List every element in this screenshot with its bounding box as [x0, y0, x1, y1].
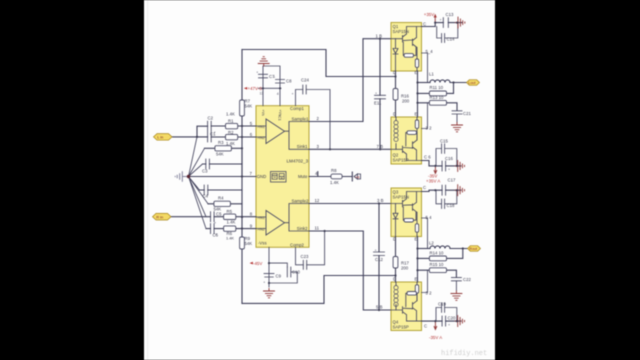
svg-text:C 6: C 6 [424, 155, 431, 160]
svg-text:+: + [215, 233, 217, 237]
svg-text:5 B: 5 B [376, 304, 383, 309]
svg-text:hifidiy.net: hifidiy.net [441, 350, 487, 358]
svg-text:C2: C2 [208, 116, 214, 121]
svg-text:+: + [440, 18, 442, 22]
svg-text:C: C [424, 324, 427, 329]
svg-text:>IN2: >IN2 [257, 228, 265, 232]
svg-text:3 2: 3 2 [426, 126, 433, 131]
svg-text:Sample2: Sample2 [292, 198, 310, 203]
svg-text:Lout: Lout [468, 81, 475, 85]
svg-text:>IN2: >IN2 [257, 136, 265, 140]
svg-text:5_4: 5_4 [426, 49, 434, 54]
svg-text:R3: R3 [218, 140, 224, 145]
svg-text:-Vss: -Vss [258, 241, 267, 246]
svg-text:+: + [375, 92, 377, 96]
svg-text:+47V-S: +47V-S [248, 86, 263, 91]
svg-text:Comp2: Comp2 [290, 242, 304, 247]
svg-text:C12: C12 [375, 257, 383, 262]
svg-text:D: D [393, 277, 396, 282]
svg-text:L2: L2 [429, 241, 434, 246]
svg-text:1.4K: 1.4K [227, 219, 236, 224]
svg-text:SAP15N: SAP15N [393, 29, 409, 34]
svg-text:Sink2: Sink2 [297, 226, 308, 231]
svg-text:SAP15N: SAP15N [393, 194, 409, 199]
svg-text:R4: R4 [218, 196, 224, 201]
svg-text:E: E [415, 277, 418, 282]
svg-text:13: 13 [260, 92, 264, 96]
svg-text:C20: C20 [448, 316, 456, 321]
svg-text:Sample1: Sample1 [292, 116, 310, 121]
svg-text:4: 4 [277, 92, 279, 96]
svg-text:1.4K: 1.4K [226, 236, 234, 241]
svg-text:-35V A: -35V A [429, 335, 442, 340]
svg-text:C16: C16 [445, 156, 453, 161]
svg-text:+: + [375, 249, 377, 253]
svg-text:D: D [393, 70, 396, 75]
svg-text:1 B: 1 B [376, 34, 383, 39]
svg-text:12: 12 [315, 198, 320, 203]
svg-text:SAP15P: SAP15P [393, 158, 409, 163]
svg-text:C18: C18 [447, 203, 455, 208]
svg-text:C17: C17 [448, 177, 456, 182]
svg-text:C23: C23 [301, 254, 309, 259]
svg-text:L in: L in [157, 135, 163, 140]
svg-text:-45V: -45V [253, 261, 262, 266]
svg-text:E: E [415, 112, 418, 117]
svg-text:+: + [256, 71, 258, 75]
svg-text:R13 10: R13 10 [430, 95, 444, 100]
svg-text:>IN1: >IN1 [257, 125, 265, 129]
svg-text:C24: C24 [301, 78, 309, 83]
svg-text:Sink1: Sink1 [297, 144, 308, 149]
svg-text:+Vs: +Vs [261, 110, 265, 116]
svg-text:R1: R1 [228, 119, 234, 124]
svg-text:C15: C15 [440, 139, 448, 144]
svg-text:3 2: 3 2 [426, 291, 433, 296]
svg-text:>IN1: >IN1 [257, 216, 265, 220]
svg-text:L1: L1 [429, 72, 434, 77]
svg-text:R11 10: R11 10 [430, 85, 444, 90]
svg-text:C9: C9 [276, 274, 282, 279]
svg-text:+: + [214, 130, 216, 134]
svg-text:7 B: 7 B [377, 144, 384, 149]
svg-text:Rout: Rout [469, 247, 477, 251]
svg-text:+35V: +35V [424, 12, 434, 17]
svg-text:C14: C14 [447, 37, 455, 42]
svg-text:200: 200 [401, 266, 409, 271]
svg-text:C13: C13 [446, 12, 454, 17]
svg-text:54K: 54K [245, 241, 253, 246]
svg-text:C22: C22 [463, 277, 471, 282]
svg-text:C: C [423, 185, 426, 190]
svg-text:D: D [393, 112, 396, 117]
svg-text:C5: C5 [216, 212, 222, 217]
svg-text:Comp1: Comp1 [290, 106, 304, 111]
svg-text:E: E [415, 70, 418, 75]
svg-text:Mute: Mute [298, 174, 308, 179]
svg-text:E: E [415, 236, 418, 241]
svg-text:R in: R in [156, 214, 163, 219]
svg-text:54K: 54K [245, 104, 253, 109]
svg-text:R5: R5 [227, 209, 233, 214]
svg-text:C3: C3 [202, 169, 208, 174]
svg-text:1.4K: 1.4K [226, 141, 235, 146]
svg-text:+: + [263, 281, 265, 285]
svg-text:R15 10: R15 10 [430, 262, 444, 267]
svg-text:11: 11 [315, 226, 320, 231]
svg-text:R14 10: R14 10 [430, 250, 444, 255]
svg-text:+: + [448, 323, 450, 327]
svg-text:IC1: IC1 [278, 115, 282, 121]
svg-text:+: + [214, 221, 216, 225]
svg-text:C4: C4 [203, 194, 209, 199]
svg-text:5 4: 5 4 [426, 215, 433, 220]
svg-text:C: C [423, 22, 426, 27]
svg-text:200: 200 [402, 98, 410, 103]
svg-text:3 B: 3 B [377, 198, 384, 203]
svg-text:SAP15P: SAP15P [393, 325, 409, 330]
svg-text:+: + [448, 168, 450, 172]
svg-text:+35V A: +35V A [426, 179, 440, 184]
svg-text:C21: C21 [463, 111, 471, 116]
svg-text:E11: E11 [374, 101, 382, 106]
svg-text:1.4K: 1.4K [330, 180, 339, 185]
svg-text:1.4K: 1.4K [226, 112, 235, 117]
svg-text:R2: R2 [228, 130, 234, 135]
svg-text:C10: C10 [292, 270, 300, 275]
svg-text:+4: +4 [355, 176, 359, 180]
svg-text:R8: R8 [331, 168, 337, 173]
svg-text:LM4702_3: LM4702_3 [287, 159, 309, 164]
svg-text:D: D [393, 236, 396, 241]
svg-text:+: + [292, 92, 294, 96]
svg-text:54K: 54K [216, 152, 224, 157]
svg-text:C19: C19 [438, 302, 446, 307]
svg-text:C8: C8 [286, 79, 292, 84]
svg-text:+: + [273, 76, 275, 80]
svg-text:GND: GND [257, 174, 267, 179]
